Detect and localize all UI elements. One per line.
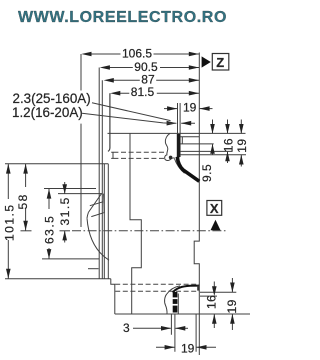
63.5 bottom extension [42, 258, 99, 260]
right bottom dim 19 [225, 278, 239, 330]
bottom small vertical lines (3 and 19 dims) [171, 314, 196, 352]
svg-text:2.3(25-160A): 2.3(25-160A) [13, 91, 91, 106]
svg-text:WWW.LOREELECTRO.RO: WWW.LOREELECTRO.RO [18, 9, 227, 26]
hidden-line end bracket top [111, 152, 113, 158]
svg-text:16: 16 [204, 295, 218, 309]
dimension 101.5 [2, 164, 16, 279]
second leader line from 1.2 label [82, 113, 195, 123]
panel cutout edge line [107, 164, 109, 279]
leader arrowhead [167, 121, 177, 126]
right bottom extension lines [200, 292, 236, 296]
svg-text:63.5: 63.5 [43, 215, 57, 244]
case top edge + right extension [108, 132, 246, 134]
case inner wall upper [130, 133, 141, 313]
svg-text:9.5: 9.5 [200, 164, 214, 182]
dimension 81.5 [110, 85, 199, 99]
view label X box [207, 201, 222, 216]
63.5 top extension [44, 188, 96, 190]
upper terminal jaw (wavy clamp profile) [165, 133, 175, 160]
upper panel section (solid black band) [177, 134, 180, 157]
svg-text:101.5: 101.5 [2, 203, 16, 241]
cutout top extension [5, 163, 108, 165]
svg-text:X: X [210, 201, 219, 216]
view direction X arrow [211, 220, 221, 231]
tick 58 bottom [21, 230, 32, 232]
dimension 31.5 [58, 182, 72, 243]
lower terminal screw (black bar) [173, 292, 178, 313]
centerline (dash-dot) [72, 230, 228, 232]
extension line 106.5 (x=81.5) [80, 54, 82, 227]
leader line from thickness label [92, 103, 171, 121]
extension line 90.5 / escutcheon outer [98, 68, 100, 279]
svg-text:3: 3 [123, 321, 130, 335]
right bottom dim 16 [204, 282, 218, 329]
handle left side [88, 194, 101, 213]
hidden dashed lines upper terminal [113, 152, 165, 158]
svg-text:58: 58 [16, 193, 30, 209]
short ledge line left [88, 268, 99, 270]
handle rung 1 [90, 202, 103, 206]
dimension 87 [104, 73, 200, 87]
jaw curl dark blob [169, 156, 173, 160]
dimension 19 bottom [156, 341, 216, 355]
handle rung 2 [91, 213, 104, 217]
lower terminal end fitting [197, 285, 199, 290]
left dims extension lines [5, 164, 111, 279]
upper terminal strap top edge [174, 159, 184, 174]
escutcheon third line [103, 164, 105, 279]
svg-text:19: 19 [183, 101, 197, 115]
handle tip [87, 212, 88, 218]
hidden-line end bracket bottom [111, 279, 115, 314]
handle right side [103, 194, 106, 213]
dimension 3 [123, 321, 188, 335]
small terminal inner edge [181, 137, 183, 144]
dimension 63.5 [43, 189, 57, 259]
svg-text:31.5: 31.5 [58, 196, 72, 225]
dimension 90.5 [100, 60, 200, 74]
right top dims 9.5 / 16 / 19 [200, 120, 215, 183]
svg-text:19: 19 [225, 299, 239, 313]
cutout bottom extension [5, 278, 111, 280]
terminal strap lines right [180, 144, 246, 155]
right reference edge (back/front plane) with notch [194, 53, 199, 356]
handle assembly [58, 194, 109, 261]
handle swing arc [87, 218, 109, 260]
view direction Z arrow [202, 56, 211, 67]
handle top line [58, 193, 102, 195]
svg-text:Z: Z [216, 55, 224, 70]
case front edge above cutout (81.5 extension) [108, 93, 110, 151]
svg-text:1.2(16-20A): 1.2(16-20A) [12, 105, 83, 120]
svg-text:19: 19 [181, 341, 195, 355]
dimension 106.5 [81, 46, 199, 60]
svg-text:19: 19 [235, 138, 249, 152]
lower terminal right side [177, 294, 179, 315]
svg-text:106.5: 106.5 [122, 46, 152, 60]
screw thread notches [173, 297, 178, 299]
lower terminal jaw (wavy clamp profile) [165, 294, 167, 314]
extension line 87 / escutcheon inner [101, 80, 103, 278]
lower terminal strap (black curve) [173, 286, 200, 293]
upper panel sheet lines [178, 103, 181, 158]
dimension 19 top [164, 101, 213, 115]
tick 31.5 bottom [60, 230, 71, 232]
hidden dashed lines lower terminal [115, 284, 199, 291]
svg-text:81.5: 81.5 [131, 85, 155, 99]
svg-text:16: 16 [222, 138, 236, 152]
case bottom edge + right extension [115, 313, 250, 315]
view label Z box [212, 54, 229, 71]
upper terminal screw (black diagonal) [177, 157, 199, 182]
lower terminal thin curve outline [167, 286, 180, 294]
terminal block second top line [180, 136, 199, 138]
dimension 58 [16, 164, 30, 231]
